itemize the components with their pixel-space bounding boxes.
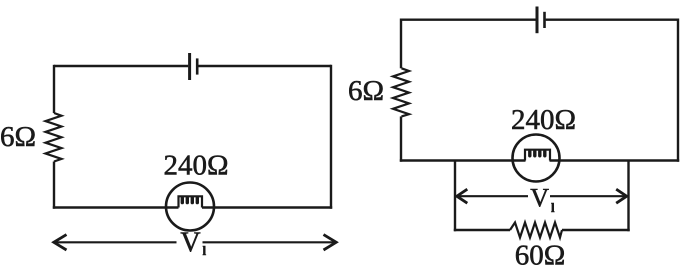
- svg-text:l: l: [203, 243, 207, 258]
- resistor R3 60ohm (right circuit) zigzag: [510, 223, 562, 238]
- battery B2 (right circuit) long plate: [536, 7, 539, 34]
- svg-text:V: V: [180, 228, 200, 259]
- wire: left circuit top side (left of battery): [54, 65, 188, 67]
- svg-text:240Ω: 240Ω: [163, 150, 228, 182]
- wire: right circuit bottom side (right of lamp): [550, 159, 680, 161]
- arrow left head (right circuit): [457, 189, 468, 203]
- lamp L1 filament coil: [182, 198, 197, 203]
- wire: right circuit lower branch bottom (right of resistor): [562, 229, 630, 231]
- wire: left circuit right side: [330, 65, 332, 209]
- svg-text:60Ω: 60Ω: [515, 240, 566, 271]
- svg-text:240Ω: 240Ω: [511, 104, 576, 136]
- lamp L2 filament bump: [525, 150, 550, 161]
- wire: right circuit top side (right of battery): [546, 19, 678, 21]
- wire: right circuit right side: [677, 19, 679, 162]
- wire: left circuit top side (right of battery): [198, 65, 331, 67]
- wire: left circuit bottom side (left of lamp): [53, 206, 179, 208]
- wire: left circuit left side upper: [53, 65, 55, 113]
- wire: right circuit left side lower: [400, 116, 402, 161]
- lamp L1 filament bump: [179, 196, 203, 207]
- wire: left circuit bottom side (right of lamp): [202, 206, 332, 208]
- svg-text:6Ω: 6Ω: [348, 75, 384, 107]
- wire: right circuit lower branch right stub: [627, 161, 629, 232]
- resistor R1 6ohm (left circuit) zigzag: [46, 113, 62, 162]
- wire: right circuit top side (left of battery): [401, 19, 536, 21]
- arrow right head (left circuit): [324, 235, 337, 250]
- wire: right circuit lower branch left stub: [454, 161, 456, 232]
- lamp L2 filament coil: [530, 151, 545, 156]
- svg-text:V: V: [530, 184, 549, 213]
- wire: right circuit lower branch bottom (left of resistor): [454, 229, 510, 231]
- arrow left head (left circuit): [54, 235, 67, 250]
- arrow Vt span (left circuit) line: [54, 235, 336, 250]
- arrow right head (right circuit): [616, 189, 627, 203]
- wire: left circuit left side lower: [53, 162, 55, 209]
- battery B2 (right circuit) short plate: [543, 12, 546, 28]
- arrow Vt span (right circuit) line: [457, 189, 627, 203]
- wire: right circuit bottom side (left of lamp): [400, 159, 526, 161]
- battery B1 (left circuit) long plate: [188, 53, 191, 80]
- resistor R2 6ohm (right circuit) zigzag: [393, 68, 409, 116]
- svg-text:6Ω: 6Ω: [0, 121, 36, 153]
- wire: right circuit left side upper: [400, 19, 402, 69]
- lamp L2 240ohm (right circuit) envelope circle: [513, 135, 560, 182]
- lamp L1 240ohm (left circuit) envelope circle: [166, 183, 214, 231]
- svg-text:l: l: [551, 200, 555, 215]
- battery B1 (left circuit) short plate: [196, 58, 199, 74]
